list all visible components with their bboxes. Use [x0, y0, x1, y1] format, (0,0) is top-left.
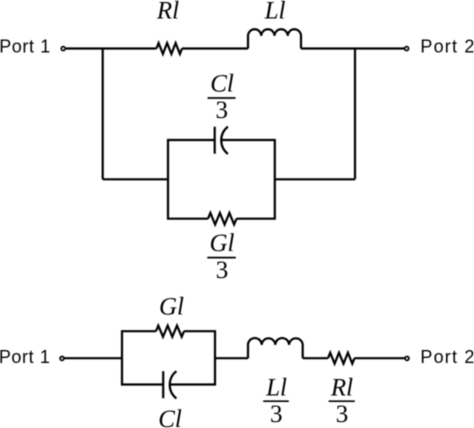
wire: parallel box right half (top-right, right edge, bottom-right): [222, 140, 275, 219]
svg-text:Rl: Rl: [330, 375, 353, 402]
wire: left junction vertical drop: [102, 49, 104, 180]
svg-text:Port 2: Port 2: [420, 37, 474, 57]
terminal: Port 2 (bottom): [405, 357, 409, 361]
svg-text:Ll: Ll: [265, 375, 287, 402]
label Gl/3: [210, 230, 235, 284]
label Ll/3: [265, 375, 287, 428]
resistor Rl/3: [328, 353, 355, 364]
svg-text:Gl: Gl: [210, 230, 235, 257]
wire: inductor Ll to Port 2: [301, 47, 404, 49]
wire: parallel box left half (top-left, left edge, bottom-left): [168, 140, 215, 219]
wire: resistor Rl/3 to Port 2: [355, 357, 405, 359]
resistor Gl: [156, 326, 184, 337]
wire: Port 1 to parallel box (bottom): [65, 357, 123, 359]
label Rl/3: [330, 375, 353, 428]
fraction bar Cl/3: [208, 97, 236, 99]
svg-text:3: 3: [270, 401, 283, 428]
terminal: Port 2 (top): [405, 47, 409, 51]
wire: inductor to resistor Rl/3: [303, 357, 328, 359]
wire: box to inductor Ll/3: [215, 357, 248, 359]
fraction bar Rl/3: [329, 400, 355, 402]
wire: Port 1 to resistor Rl: [66, 47, 157, 49]
svg-text:Ll: Ll: [264, 0, 286, 24]
fraction bar Gl/3: [207, 257, 236, 259]
svg-text:3: 3: [336, 401, 349, 428]
wire: left drop to parallel box: [103, 178, 168, 180]
wire: right junction vertical: [354, 49, 356, 180]
label Cl/3: [210, 71, 234, 125]
svg-text:Cl: Cl: [210, 71, 234, 98]
resistor Rl: [157, 43, 183, 54]
fraction bar Ll/3: [263, 400, 289, 402]
capacitor Cl: [163, 371, 176, 398]
svg-text:3: 3: [216, 97, 229, 124]
capacitor Cl/3: [215, 127, 228, 154]
svg-text:Port 2: Port 2: [420, 347, 474, 367]
terminal: Port 1 (bottom): [60, 357, 64, 361]
inductor Ll: [248, 29, 301, 48]
svg-text:Gl: Gl: [159, 294, 184, 321]
svg-text:Cl: Cl: [158, 406, 182, 428]
wire: bottom box right half (top-right, right edge, bottom-right): [170, 331, 215, 384]
svg-text:3: 3: [216, 257, 229, 284]
wire: resistor Rl to inductor Ll: [182, 47, 248, 49]
wire: box to right junction: [275, 178, 355, 180]
svg-text:Rl: Rl: [156, 0, 179, 25]
terminal: Port 1 (top): [61, 47, 65, 51]
svg-text:Port 1: Port 1: [0, 347, 50, 367]
wire: bottom box left half (top-left, left edge, bottom-left): [122, 331, 163, 384]
inductor Ll/3: [248, 338, 303, 358]
resistor Gl/3: [208, 213, 237, 225]
svg-text:Port 1: Port 1: [0, 37, 51, 57]
